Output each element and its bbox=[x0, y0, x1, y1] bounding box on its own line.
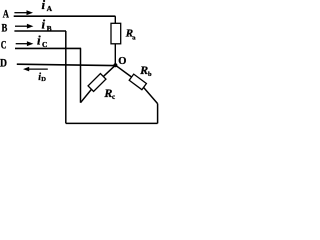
wire bottom rail bbox=[66, 122, 158, 124]
wire right riser bbox=[157, 104, 159, 124]
svg-text:i: i bbox=[42, 0, 46, 12]
current arrow iD (points left, below wire) bbox=[28, 68, 48, 70]
svg-text:C: C bbox=[42, 40, 47, 49]
svg-text:O: O bbox=[118, 56, 126, 67]
wire A horizontal bbox=[14, 15, 116, 17]
svg-text:R: R bbox=[139, 63, 148, 77]
wire D horizontal (neutral to node O) bbox=[17, 64, 114, 65]
wire A vertical drop into Ra bbox=[114, 16, 116, 23]
svg-text:c: c bbox=[112, 93, 115, 101]
svg-text:A: A bbox=[3, 9, 10, 21]
svg-text:b: b bbox=[148, 71, 152, 78]
svg-text:i: i bbox=[37, 32, 41, 47]
wire C horizontal bbox=[15, 47, 81, 49]
resistor Rc (left diagonal) bbox=[88, 74, 106, 92]
svg-text:B: B bbox=[2, 22, 8, 34]
node O junction dot bbox=[113, 63, 117, 67]
wire Ra to node O bbox=[114, 44, 116, 65]
current arrow iB bbox=[15, 25, 27, 27]
svg-text:i: i bbox=[42, 17, 46, 32]
current arrow iA bbox=[14, 12, 26, 14]
wire B vertical drop bbox=[65, 31, 67, 123]
wire right diagonal branch (O to bottom-right corner) bbox=[115, 65, 157, 103]
svg-text:D: D bbox=[41, 76, 46, 83]
wire left diagonal branch (O to C drop) bbox=[81, 65, 116, 103]
resistor Ra bbox=[111, 23, 121, 44]
current arrow iC bbox=[16, 43, 27, 45]
svg-text:A: A bbox=[47, 4, 53, 13]
wire C vertical drop bbox=[80, 48, 82, 102]
wire B horizontal bbox=[14, 30, 66, 32]
svg-text:D: D bbox=[0, 58, 7, 70]
svg-text:C: C bbox=[1, 40, 7, 52]
svg-text:B: B bbox=[47, 24, 52, 33]
resistor Rb (right diagonal) bbox=[129, 74, 146, 90]
